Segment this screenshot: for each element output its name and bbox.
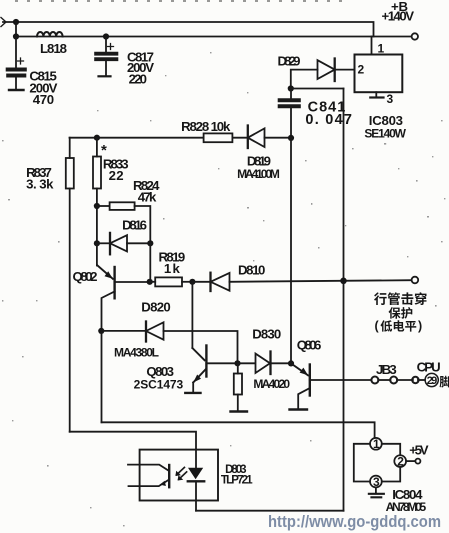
IC804 regulator pins [354, 438, 415, 493]
svg-text:1k: 1k [164, 261, 181, 276]
wire R819 junction down to Q803 [191, 282, 193, 348]
transistor Q803 [192, 346, 237, 392]
wire down to R819 [149, 243, 151, 281]
svg-text:D816: D816 [122, 218, 147, 233]
diode D829 [291, 59, 355, 89]
capacitor C841 [279, 89, 301, 139]
wire Q802 collector down [101, 331, 103, 422]
wire top rail [3, 22, 374, 37]
node +140V terminal [412, 33, 418, 39]
svg-text:R828 10k: R828 10k [181, 119, 231, 134]
svg-text:AN78M05: AN78M05 [386, 500, 427, 514]
resistor R828 [204, 133, 233, 142]
label protect line1 (drawn CJK) [374, 292, 427, 305]
svg-text:Q806: Q806 [297, 338, 322, 353]
svg-text:47k: 47k [138, 190, 157, 205]
capacitor C815 [7, 37, 27, 90]
svg-text:0. 047: 0. 047 [305, 112, 352, 128]
svg-text:220: 220 [129, 72, 147, 87]
resistor R833 [93, 138, 101, 206]
top edge scan marks [15, 0, 348, 2]
svg-text:22: 22 [109, 168, 124, 183]
wire mid vertical [290, 138, 292, 364]
resistor R824 [97, 202, 150, 243]
node junction [288, 85, 294, 91]
node junction dot lower [13, 33, 19, 39]
svg-text:): ) [418, 319, 422, 333]
wire right loop vertical [343, 89, 345, 511]
svg-text:TLP721: TLP721 [221, 474, 253, 486]
ground [9, 89, 24, 91]
node +5V terminal [415, 459, 420, 464]
node junction R819 right [189, 279, 195, 285]
wire [15, 22, 17, 37]
svg-text:D820: D820 [141, 299, 170, 314]
ground [185, 392, 200, 394]
wire bottom loop [196, 510, 344, 512]
label pin foot (drawn CJK) [440, 376, 449, 388]
node junction R819 left [147, 279, 153, 285]
svg-text:470: 470 [33, 92, 54, 107]
diode D816 [97, 233, 150, 254]
optocoupler phototransistor [128, 465, 169, 488]
svg-text:MA4100M: MA4100M [237, 167, 280, 181]
node CPU terminal [412, 377, 418, 383]
wire R833 down [96, 206, 98, 243]
label protect line3 (drawn CJK) [380, 320, 416, 332]
svg-text:http://www.go-gddq.com: http://www.go-gddq.com [268, 513, 441, 531]
wire to right loop [291, 88, 344, 90]
resistor to ground [234, 363, 242, 410]
svg-text:L818: L818 [40, 41, 67, 56]
node JB3 connector circles [371, 377, 378, 384]
svg-text:MA4380L: MA4380L [114, 345, 159, 359]
diode D810 [192, 273, 411, 291]
svg-text:+140V: +140V [382, 9, 415, 24]
svg-text:CPU: CPU [417, 359, 441, 374]
ground [99, 75, 111, 77]
node junction R833 top [94, 135, 100, 141]
resistor R819 [150, 277, 193, 286]
svg-text:1: 1 [378, 42, 385, 56]
op-amp IC803 box [355, 37, 403, 98]
node junction Q806 emitter [288, 360, 294, 366]
svg-text:29: 29 [427, 375, 438, 387]
svg-text:D830: D830 [252, 326, 281, 341]
svg-text:MA4020: MA4020 [253, 377, 290, 391]
node junction [147, 240, 153, 246]
node junction [94, 240, 100, 246]
svg-text:2: 2 [397, 455, 404, 469]
svg-text:2SC1473: 2SC1473 [134, 378, 184, 392]
svg-text:3: 3 [387, 92, 394, 106]
svg-text:Q803: Q803 [146, 364, 174, 379]
wire to opto [70, 432, 196, 450]
node junction on loop [340, 278, 347, 285]
node junction [94, 203, 100, 209]
svg-text:JB3: JB3 [376, 362, 397, 377]
svg-text:SE140W: SE140W [364, 126, 406, 140]
svg-text:3. 3k: 3. 3k [26, 177, 54, 192]
diode D830 [238, 352, 292, 375]
svg-text:+5V: +5V [409, 442, 429, 457]
transistor Q802 [97, 243, 150, 331]
diode D819 [248, 126, 291, 149]
optocoupler D803 box [140, 450, 218, 501]
capacitor C817 [95, 33, 118, 75]
ground [290, 408, 308, 410]
wire R828 row [70, 137, 204, 139]
label protect line2 (drawn CJK) [389, 307, 413, 319]
node terminal [412, 277, 419, 284]
wire B+ rail lower [16, 36, 412, 38]
svg-text:Q802: Q802 [73, 269, 98, 284]
diode D820 [101, 322, 237, 364]
node junction dot top [13, 19, 19, 25]
svg-text:3: 3 [373, 475, 380, 489]
svg-text:1: 1 [373, 437, 380, 451]
node junction D830 anode [234, 360, 240, 366]
ground [369, 494, 384, 498]
node CPU pin 29 circle [425, 373, 438, 386]
svg-text:D810: D810 [238, 263, 265, 278]
node input chevron [1, 18, 6, 27]
resistor R837 [66, 138, 74, 432]
svg-text:2: 2 [358, 63, 365, 77]
svg-text:D829: D829 [278, 54, 301, 69]
transistor Q806 [291, 363, 372, 408]
wire to IC804 [102, 422, 375, 438]
ground [231, 410, 248, 412]
optocoupler LED [188, 450, 204, 511]
optocoupler light arrows [175, 467, 186, 480]
inductor L818 [37, 32, 63, 37]
node junction [288, 135, 294, 141]
node junction D820 left [98, 328, 104, 334]
